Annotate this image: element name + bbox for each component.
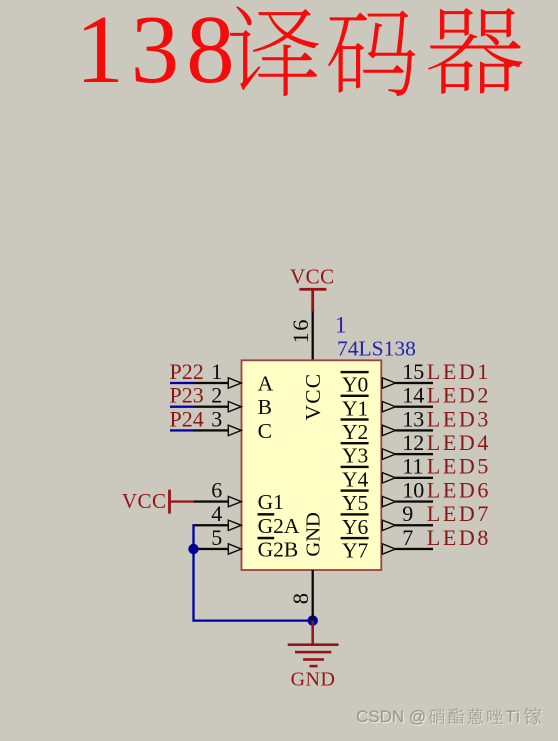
wire (blue) from pin 4/5 down to ground net (194, 524, 313, 621)
wire Y0 to LED1, pin 15 (382, 378, 433, 388)
svg-text:Y0: Y0 (342, 373, 368, 397)
svg-text:12: 12 (402, 430, 424, 455)
pin name A (258, 372, 274, 396)
svg-text:7: 7 (402, 525, 413, 550)
svg-text:Y6: Y6 (342, 515, 369, 539)
title "138译码器" (76, 0, 523, 103)
pin name Y7 (active low) (341, 537, 369, 563)
svg-text:P22: P22 (170, 359, 204, 384)
svg-text:G2B: G2B (258, 538, 299, 562)
wire Y6 to LED7, pin 9 (382, 520, 433, 530)
wire Y7 to LED8, pin 7 (382, 544, 433, 554)
svg-text:1: 1 (335, 313, 347, 338)
svg-text:P23: P23 (170, 383, 204, 408)
wire Y5 to LED6, pin 10 (382, 496, 433, 506)
svg-text:Y7: Y7 (342, 539, 369, 563)
svg-text:G2A: G2A (258, 514, 300, 538)
svg-text:2: 2 (211, 383, 222, 408)
svg-text:LED4: LED4 (427, 430, 491, 455)
svg-text:8: 8 (288, 593, 313, 604)
pin name C (258, 419, 272, 443)
pin name G1 (258, 490, 284, 514)
svg-text:74LS138: 74LS138 (337, 336, 416, 360)
svg-text:GND: GND (291, 669, 336, 691)
junction dot at ground net (308, 615, 318, 625)
pin name G2A (258, 513, 300, 538)
wire Y3 to LED4, pin 12 (382, 449, 433, 459)
pin name Y1 (active low) (341, 395, 369, 421)
svg-text:B: B (258, 395, 272, 419)
svg-text:4: 4 (211, 501, 222, 526)
svg-text:5: 5 (211, 525, 222, 550)
svg-text:VCC: VCC (301, 373, 325, 421)
svg-text:3: 3 (211, 406, 222, 431)
pin name Y3 (active low) (341, 442, 369, 468)
svg-text:9: 9 (402, 501, 413, 526)
svg-text:LED2: LED2 (427, 383, 491, 408)
wire to pin 4 (194, 520, 242, 530)
pin name Y6 (active low) (341, 513, 369, 539)
svg-text:A: A (258, 372, 274, 396)
svg-text:13: 13 (402, 406, 424, 431)
svg-text:LED7: LED7 (427, 501, 491, 526)
svg-text:15: 15 (402, 359, 424, 384)
svg-text:10: 10 (402, 477, 424, 502)
svg-text:LED1: LED1 (427, 359, 491, 384)
svg-text:VCC: VCC (122, 489, 167, 513)
svg-text:Y3: Y3 (342, 444, 368, 468)
svg-text:Y1: Y1 (342, 396, 368, 420)
wire Y1 to LED2, pin 14 (382, 402, 433, 412)
wire to pin 5 (194, 544, 242, 554)
pin name Y5 (active low) (341, 489, 369, 515)
power terminal VCC (top) (290, 264, 335, 312)
svg-text:11: 11 (402, 454, 423, 479)
svg-text:LED3: LED3 (427, 406, 491, 431)
svg-text:1: 1 (211, 359, 222, 384)
wire/net P22 to pin 1 (170, 378, 241, 388)
svg-text:LED8: LED8 (427, 525, 491, 550)
svg-text:C: C (258, 419, 272, 443)
IC body 74LS138 (242, 360, 382, 570)
wire Y4 to LED5, pin 11 (382, 473, 433, 483)
pin name Y4 (active low) (341, 466, 369, 492)
svg-text:Y2: Y2 (342, 420, 368, 444)
svg-text:138: 138 (76, 0, 242, 103)
svg-text:Ti: Ti (505, 707, 521, 726)
wire: pin 8 (GND) (312, 570, 314, 621)
svg-text:CSDN @: CSDN @ (356, 707, 426, 726)
wire/net P23 to pin 2 (170, 402, 241, 412)
svg-text:Y5: Y5 (342, 491, 368, 515)
wire/net P24 to pin 3 (170, 425, 241, 435)
pin name Y0 (active low) (341, 371, 369, 397)
pin name Y2 (active low) (341, 418, 369, 444)
svg-text:6: 6 (211, 477, 222, 502)
wire: pin 16 (VCC) (312, 312, 314, 361)
pin name G2B (258, 537, 299, 562)
ground terminal GND (288, 621, 339, 691)
power terminal VCC (left, to G1) (122, 489, 194, 513)
svg-text:VCC: VCC (290, 264, 335, 288)
wire Y2 to LED3, pin 13 (382, 425, 433, 435)
junction dot at pin 5 (188, 544, 198, 554)
pin name B (258, 395, 272, 419)
wire to pin 6 (194, 496, 242, 506)
svg-text:LED5: LED5 (427, 454, 491, 479)
svg-text:16: 16 (288, 318, 313, 344)
svg-text:14: 14 (402, 383, 424, 408)
svg-text:LED6: LED6 (427, 477, 491, 502)
svg-text:P24: P24 (170, 406, 204, 431)
watermark CSDN (357, 708, 542, 727)
svg-text:Y4: Y4 (342, 467, 369, 491)
svg-text:GND: GND (303, 512, 325, 556)
svg-text:G1: G1 (258, 490, 284, 514)
